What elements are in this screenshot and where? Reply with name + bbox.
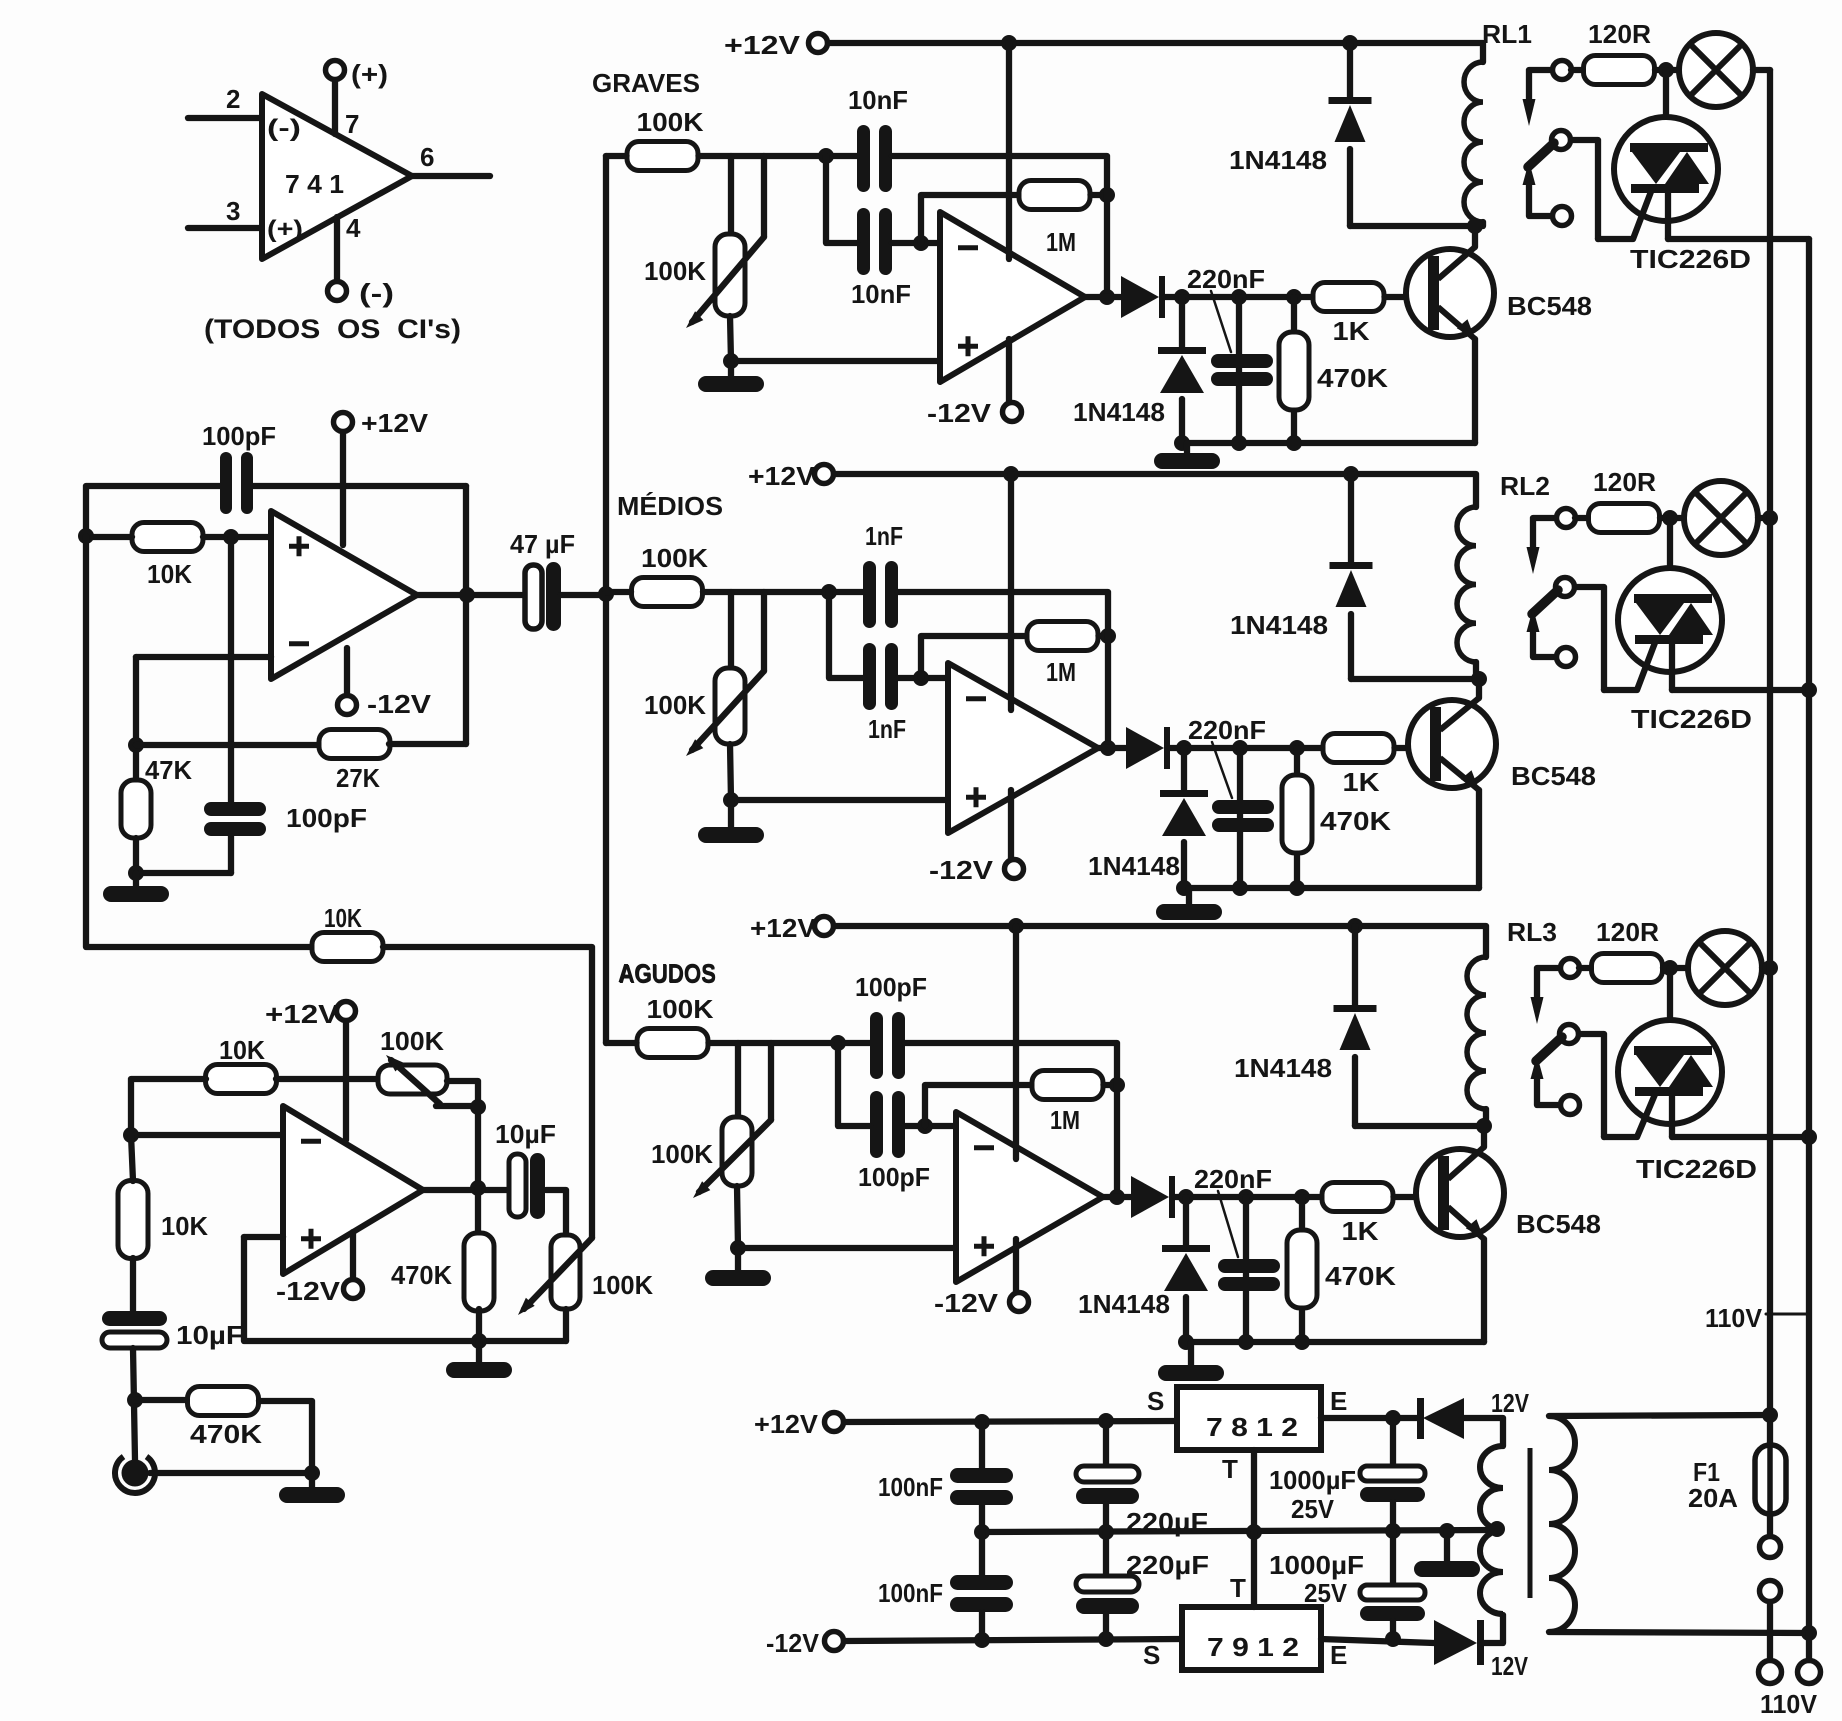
diode 1N4148 flyback graves [1329,97,1372,142]
label -12V stage1 [367,689,432,719]
wire 120R to lamp medios [1660,515,1684,521]
svg-text:7 8 1 2: 7 8 1 2 [1206,1412,1298,1442]
label (-) supply [359,278,394,308]
terminal -12V graves [1003,403,1022,422]
contact terminal feed graves [1553,61,1572,80]
junction rail op-amp supply medios [1003,466,1019,482]
label 47K [145,755,192,785]
wire + node down to 100pF [228,537,234,803]
label medios [617,491,723,521]
wire collector up agudos [1481,1126,1487,1147]
arrow contact feed agudos [1531,997,1544,1024]
wire supply lower graves [1006,339,1012,403]
wire 10K right to pot [276,1076,378,1082]
wire 1K to base agudos [1394,1194,1439,1200]
pin7 wire [332,80,338,134]
svg-text:100K: 100K [651,1139,713,1169]
resistor 10K stage1 [132,523,203,552]
label 10nF bottom graves [851,279,911,309]
wire gate graves [1598,189,1652,239]
svg-text:1K: 1K [1342,1216,1379,1246]
wire fuse to plug [1767,1514,1773,1536]
label 1nF bottom medios [868,714,906,744]
svg-text:2: 2 [226,84,240,114]
label -12V medios [929,855,994,885]
svg-text:7 9 1 2: 7 9 1 2 [1207,1632,1299,1662]
junction node A medios [821,584,837,600]
resistor 27K [319,730,390,759]
capacitor 220nF medios [1212,800,1274,832]
label +12V psu [754,1409,819,1439]
svg-text:220nF: 220nF [1188,715,1266,745]
pin T 7812 [1222,1454,1238,1484]
wire supply upper graves [1006,43,1012,259]
wire 100nF bot col [979,1532,985,1575]
wire 470K right [259,1401,312,1473]
wire plus input graves [731,358,940,364]
label 220nF graves [1187,264,1265,294]
wire pot bottom [563,1309,569,1341]
junction lamp bus medios [1762,510,1778,526]
wire 220nF column medios [1237,748,1243,888]
wire MT1 rail agudos [1672,1134,1809,1140]
label 25V top [1291,1494,1335,1524]
wire emitter down medios [1476,790,1482,888]
label 470K input [190,1419,262,1449]
junction - node / 47K [128,737,144,753]
wire pot wiper tap [436,1103,478,1109]
wire 47uF out to bus [561,592,606,598]
wire lamp to bus graves [1753,67,1770,73]
junction diode shunt medios [1176,740,1192,756]
wire +12V supply [340,431,346,545]
svg-text:12V: 12V [1491,1651,1529,1681]
wire supply upper medios [1008,474,1014,710]
label 100pF top agudos [855,972,927,1002]
label 1M graves [1046,227,1076,257]
svg-text:1nF: 1nF [868,714,906,744]
svg-text:470K: 470K [1317,363,1388,393]
wire MT1 agudos [1669,1096,1675,1137]
label +12V stage2 [265,999,340,1029]
wire contact feed graves [1529,70,1554,100]
junction - node stage2 [123,1127,139,1143]
resistor 470K stage2 [464,1233,494,1311]
svg-text:S: S [1147,1386,1164,1416]
wire bottom rail graves [1182,440,1475,446]
label 741 [285,169,344,199]
svg-text:47K: 47K [145,755,192,785]
label 100nF bottom [878,1578,943,1608]
wire feed to 120R agudos [1579,965,1591,971]
resistor 470K agudos [1287,1230,1317,1308]
junction bottom 3 graves [1286,435,1302,451]
svg-text:-12V: -12V [934,1288,999,1318]
triac TIC226D medios [1618,568,1722,672]
svg-text:220nF: 220nF [1194,1164,1272,1194]
wire cap right elbow [546,1190,566,1235]
wire +12V rail psu [844,1421,1177,1422]
wire 10K left [86,534,132,540]
junction bottom 2 graves [1231,435,1247,451]
wire 120R to lamp graves [1655,67,1679,73]
junction lamp bus agudos [1762,960,1778,976]
svg-text:47 µF: 47 µF [510,529,575,559]
wire shunt diode top agudos [1183,1197,1189,1245]
label -12V stage2 [276,1276,341,1306]
capacitor 220uF top electrolytic [1076,1466,1139,1504]
capacitor 220uF bottom electrolytic [1076,1576,1139,1614]
resistor 1K agudos [1322,1183,1393,1212]
label 1N4148 shunt medios [1088,851,1180,881]
wire shunt diode top medios [1181,748,1187,790]
relay armature agudos [1536,1037,1562,1061]
resistor 100K input graves [627,142,698,171]
wire node line graves [699,153,858,159]
label AGUDOS [619,959,716,989]
ground graves [698,361,764,392]
svg-text:TIC226D: TIC226D [1630,244,1751,274]
svg-text:1K: 1K [1343,767,1380,797]
junction output stage2 [470,1180,486,1196]
label 110V bottom [1760,1689,1818,1719]
wire shunt diode bottom medios [1181,842,1187,888]
wire 27K left [136,742,320,748]
wire minus input graves [892,240,940,246]
wire bus to 110V right [1806,1633,1812,1660]
wire 1K to base medios [1395,745,1431,751]
label 100K input graves [637,107,704,137]
wire collector up medios [1476,679,1482,698]
junction 220uF bot [1098,1631,1114,1647]
wire armature common graves [1529,184,1553,216]
relay coil RL1 graves [1464,62,1483,222]
label 1K agudos [1342,1216,1379,1246]
svg-text:TIC226D: TIC226D [1636,1154,1757,1184]
svg-text:100nF: 100nF [878,1578,943,1608]
junction lamp triac agudos [1662,960,1678,976]
wire 100nF bot col2 [979,1612,985,1640]
label BC548 agudos [1516,1209,1601,1239]
capacitor 220nF agudos [1218,1259,1280,1291]
wire 47K bottom [133,838,139,873]
junction 220nF top agudos [1238,1189,1254,1205]
wire flyback diode bottom agudos [1352,1057,1358,1126]
wire flyback diode top agudos [1352,926,1358,1005]
junction rail op-amp supply agudos [1008,918,1024,934]
wire MT2 medios [1667,518,1673,594]
wire minus input medios [898,675,948,681]
pin E 7812 [1330,1386,1347,1416]
junction bottom 3 medios [1289,880,1305,896]
wire contact to gate agudos [1579,1034,1604,1137]
wire feedback top rail [86,486,222,536]
wire 7812 T [1251,1450,1257,1532]
wire output to diode graves [1085,294,1121,300]
ground stage2 [446,1341,512,1378]
svg-text:RL1: RL1 [1482,19,1532,49]
wire feed to 120R graves [1571,67,1583,73]
wire gate medios [1604,640,1656,690]
wire shunt diode bottom agudos [1183,1297,1189,1342]
relay armature medios [1532,590,1558,614]
svg-text:110V: 110V [1760,1689,1818,1716]
resistor 47K [121,780,151,838]
wire left bus down [86,536,312,947]
svg-text:E: E [1330,1386,1347,1416]
wire output stage2 [423,1187,511,1193]
wire shunt diode top graves [1179,297,1185,347]
wire 470K bottom [476,1309,482,1341]
wire pot wiper from node medios [761,592,767,671]
wire supply lower medios [1008,790,1014,860]
wire diode to winding bottom [1484,1615,1503,1643]
input jack J1 [115,1457,155,1493]
svg-text:100K: 100K [380,1026,444,1056]
svg-text:(-): (-) [359,278,394,308]
contact terminal feed agudos [1561,959,1580,978]
junction + input node [223,529,239,545]
diode 1N4148 flyback medios [1330,562,1373,607]
fuse F1 [1755,1445,1786,1514]
op-amp 741 agudos [956,1112,1103,1282]
svg-text:(-): (-) [267,115,301,142]
wire to pot top graves [728,156,734,234]
junction lamp triac graves [1658,62,1674,78]
junction 100nF top [974,1414,990,1430]
junction rail diode graves [1342,35,1358,51]
wire pot right down [447,1081,478,1186]
svg-text:-12V: -12V [927,398,992,428]
label 1M agudos [1050,1105,1080,1135]
label 10K [147,559,192,589]
wire MT1 bus 110V [1806,239,1812,1633]
transistor BC548 agudos [1416,1147,1504,1239]
svg-text:7 4 1: 7 4 1 [285,169,344,199]
diode 1N4148 flyback agudos [1334,1005,1377,1050]
label 120R graves [1588,19,1651,49]
op-amp 741 graves [940,212,1085,382]
contact terminal NO medios [1556,578,1575,597]
label 220nF medios [1188,715,1266,745]
wire to pot top medios [728,592,734,668]
pin 3 [226,196,240,226]
junction 470K input [127,1392,143,1408]
junction minus node agudos [917,1118,933,1134]
svg-text:100K: 100K [647,994,714,1024]
wire contact feed agudos [1537,968,1562,998]
svg-text:470K: 470K [1325,1261,1396,1291]
wire 220nF column graves [1236,297,1242,443]
wire 10K feedback right [383,947,592,1238]
capacitor 1nF top medios [863,561,898,628]
label (+) pin3 [267,216,303,243]
wire 470K left [135,1397,187,1403]
wire node line medios [703,589,863,595]
wire plus input agudos [738,1245,956,1251]
diode 12V top [1417,1398,1464,1439]
relay armature graves [1528,143,1554,167]
wire output [417,592,525,598]
label TIC226D medios [1631,704,1752,734]
label (+) supply [351,59,388,89]
wire armature common medios [1533,631,1557,657]
svg-text:(+): (+) [351,59,388,89]
svg-text:470K: 470K [1320,806,1391,836]
resistor 120R agudos [1592,954,1663,983]
svg-text:BC548: BC548 [1516,1209,1601,1239]
label -12V psu [766,1628,820,1658]
label 220nF agudos [1194,1164,1272,1194]
svg-text:470K: 470K [190,1419,262,1449]
svg-text:RL3: RL3 [1507,917,1557,947]
wire 470K column agudos [1299,1197,1305,1342]
relay coil RL3 agudos [1467,957,1486,1109]
contact terminal NO graves [1552,131,1571,150]
label 47uF [510,529,575,559]
terminal (-) supply [328,282,347,301]
svg-text:10K: 10K [147,559,192,589]
relay coil RL2 medios [1457,507,1476,662]
junction bottom 2 medios [1232,880,1248,896]
wire armature common agudos [1537,1078,1561,1105]
wire 7912 out [1321,1639,1434,1643]
wire 220uF top col [1103,1421,1109,1466]
capacitor 220nF graves [1211,354,1273,386]
wire 1M right medios [1099,633,1109,639]
ground agudos [705,1248,771,1286]
wire to pot top agudos [735,1043,741,1117]
wire lamp to bus medios [1758,515,1770,521]
resistor 10K stage2 left [118,1181,148,1259]
capacitor 100pF feedback [220,452,253,514]
svg-text:MÉDIOS: MÉDIOS [617,491,723,521]
pin 4 [346,213,361,243]
junction output node [459,587,475,603]
wire output down 470K [475,1188,481,1235]
terminal -12V medios [1005,860,1024,879]
junction coil collector agudos [1476,1118,1492,1134]
junction ground rail stage2 [471,1333,487,1349]
svg-text:-12V: -12V [766,1628,820,1658]
capacitor 100nF bottom [950,1575,1013,1612]
wire minus input agudos [905,1123,956,1129]
wire - input down [133,657,139,780]
svg-text:BC548: BC548 [1507,291,1592,321]
wire bottom rail agudos [1186,1339,1484,1345]
wire 100nF top col [979,1422,985,1468]
resistor 120R graves [1584,56,1655,85]
junction bottom 1 graves [1174,435,1190,451]
wire 1000uF top col2 [1390,1502,1396,1531]
svg-text:T: T [1230,1573,1246,1603]
terminal +12V agudos [815,917,834,936]
potentiometer 100K graves [686,234,764,328]
svg-text:470K: 470K [391,1260,452,1290]
wire 1000uF bot col [1390,1531,1396,1585]
triac TIC226D agudos [1618,1020,1722,1124]
svg-text:4: 4 [346,213,361,243]
junction left bus / 10K [78,528,94,544]
ground stage1 [103,873,169,902]
svg-text:(TODOS OS CI's): (TODOS OS CI's) [204,314,461,344]
wire 100pF bottom link [136,870,231,876]
diode detector medios [1126,727,1170,769]
wire MT1 medios [1669,644,1675,690]
svg-text:110V: 110V [1705,1303,1763,1333]
capacitor 100pF bottom agudos [870,1091,905,1158]
wire node to bottom cap medios [829,592,863,678]
svg-text:100K: 100K [641,543,708,573]
op-amp 741 medios [948,663,1098,833]
label RL2 medios [1500,471,1550,501]
wire 220nF column agudos [1243,1197,1249,1342]
junction output graves [1099,289,1115,305]
ground psu [1414,1531,1480,1577]
label 1N4148 flyback agudos [1234,1053,1332,1083]
label F1 [1693,1457,1720,1487]
junction 7812 out [1385,1410,1401,1426]
label 470K agudos [1325,1261,1396,1291]
label 100nF top [878,1472,943,1502]
junction bottom 2 agudos [1238,1334,1254,1350]
contact terminal NC graves [1553,207,1572,226]
terminal +12V stage2 [337,1002,356,1021]
svg-text:+12V: +12V [724,30,801,60]
resistor 10K feedback [312,933,383,962]
svg-text:1M: 1M [1046,657,1076,687]
label +12V agudos [750,913,817,943]
contact terminal feed medios [1557,509,1576,528]
wire top rail to output graves [892,156,1107,297]
wire output right vertical [463,486,469,744]
wire node to bottom cap graves [826,156,857,243]
label 100K input medios [641,543,708,573]
junction 7912 out [1385,1631,1401,1647]
wire +12V rail medios [834,474,1476,507]
label 1nF top medios [865,521,903,551]
svg-text:1000µF: 1000µF [1269,1465,1356,1495]
label +12V graves [724,30,801,60]
junction minus node medios [913,670,929,686]
junction output agudos [1109,1189,1125,1205]
junction 100nF bot [974,1632,990,1648]
label (-) pin2 [267,115,301,142]
resistor 100K input agudos [637,1029,708,1058]
label graves [592,68,700,98]
wire flyback diode bottom graves [1347,149,1353,226]
resistor 1K medios [1323,734,1394,763]
junction bottom 1 agudos [1178,1334,1194,1350]
diode 12V bottom [1434,1620,1484,1665]
arrow armature agudos [1531,1055,1544,1079]
junction bottom 1 medios [1176,880,1192,896]
svg-text:-12V: -12V [929,855,994,885]
svg-text:+12V: +12V [748,461,816,491]
wire 10K right to + input [203,534,271,540]
wire contact to gate medios [1575,587,1604,690]
label 100K input agudos [647,994,714,1024]
wire +12V supply stage2 [343,1020,349,1140]
svg-text:120R: 120R [1588,19,1651,49]
junction mid tap [1489,1521,1505,1537]
capacitor 100pF top agudos [870,1012,905,1079]
wire pot wiper from node agudos [768,1043,774,1120]
junction plus node agudos [730,1240,746,1256]
label -12V graves [927,398,992,428]
resistor 1K graves [1313,283,1384,312]
svg-text:100K: 100K [644,690,706,720]
